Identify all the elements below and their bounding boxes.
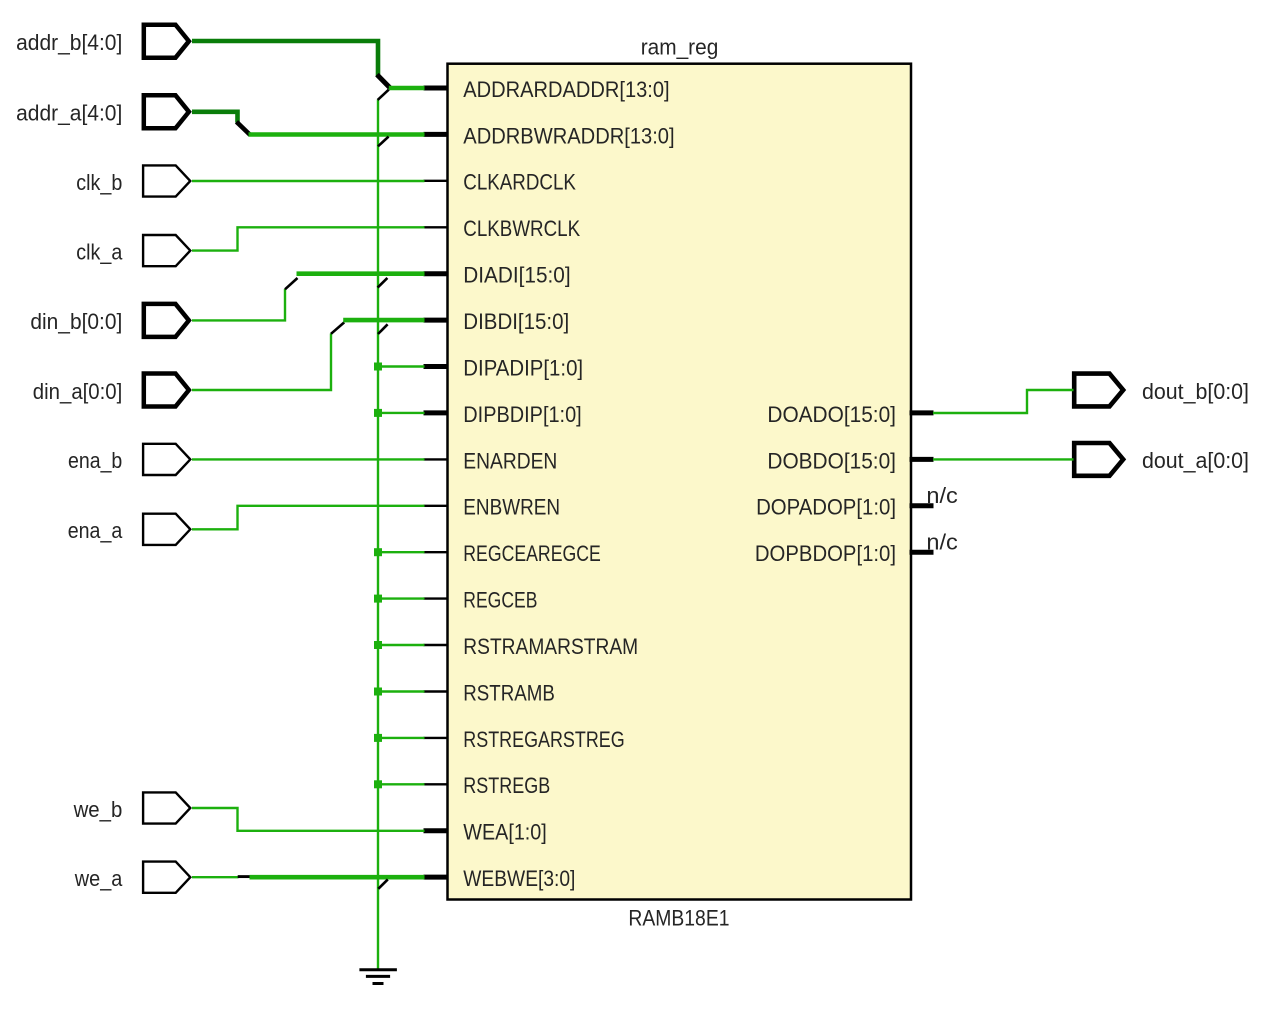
wire din_b bbox=[192, 289, 285, 320]
gnd branch wire to RSTRAMB bbox=[378, 690, 425, 692]
bus ripper addr_b to ADDRARDADDR bbox=[377, 75, 390, 88]
svg-text:RSTRAMARSTRAM: RSTRAMARSTRAM bbox=[463, 634, 638, 659]
port label addr_a[4:0] bbox=[16, 101, 122, 126]
pin stub DOPADOP[1:0] bbox=[910, 503, 934, 508]
bus ripper ADDRBWRADDR rail tap bbox=[378, 137, 389, 147]
pin label CLKBWRCLK bbox=[463, 216, 580, 241]
gnd branch wire to REGCEB bbox=[378, 597, 425, 599]
gnd branch wire to RSTREGARSTREG bbox=[378, 737, 425, 739]
pin label DOPBDOP[1:0] bbox=[755, 541, 896, 566]
pin label ENARDEN bbox=[463, 448, 557, 473]
svg-text:ADDRBWRADDR[13:0]: ADDRBWRADDR[13:0] bbox=[463, 123, 674, 148]
svg-text:RSTREGB: RSTREGB bbox=[463, 773, 550, 798]
output port dout_a[0:0] bbox=[1074, 443, 1123, 476]
svg-text:DIPADIP[1:0]: DIPADIP[1:0] bbox=[463, 355, 583, 380]
gnd branch wire to REGCEAREGCE bbox=[378, 551, 425, 553]
pin stub ENARDEN bbox=[424, 458, 449, 460]
svg-text:n/c: n/c bbox=[926, 529, 957, 554]
port label addr_b[4:0] bbox=[16, 30, 122, 55]
pin label DOPADOP[1:0] bbox=[756, 495, 896, 520]
bus ripper DIADI rail tap bbox=[378, 278, 388, 288]
svg-text:REGCEB: REGCEB bbox=[463, 588, 537, 613]
pin label ENBWREN bbox=[463, 495, 560, 520]
port label din_b[0:0] bbox=[30, 309, 122, 334]
svg-text:DIBDI[15:0]: DIBDI[15:0] bbox=[463, 309, 569, 334]
svg-text:din_a[0:0]: din_a[0:0] bbox=[33, 379, 123, 404]
junction dot RSTREGARSTREG bbox=[374, 734, 382, 742]
input port din_b[0:0] bbox=[144, 304, 189, 337]
pin label REGCEB bbox=[463, 588, 537, 613]
pin label RSTREGARSTREG bbox=[463, 727, 624, 752]
svg-text:WEA[1:0]: WEA[1:0] bbox=[463, 820, 547, 845]
pin label DIPADIP[1:0] bbox=[463, 355, 583, 380]
svg-text:n/c: n/c bbox=[926, 483, 957, 508]
svg-text:WEBWE[3:0]: WEBWE[3:0] bbox=[463, 866, 575, 891]
pin label DIBDI[15:0] bbox=[463, 309, 569, 334]
pin stub REGCEB bbox=[424, 597, 449, 599]
instance name ram_reg bbox=[641, 35, 719, 60]
wire ADDRBWRADDR bus bbox=[249, 132, 425, 137]
svg-text:REGCEAREGCE: REGCEAREGCE bbox=[463, 541, 601, 566]
svg-text:DOADO[15:0]: DOADO[15:0] bbox=[767, 402, 896, 427]
port label clk_a bbox=[76, 239, 123, 264]
input port din_a[0:0] bbox=[144, 374, 189, 407]
gnd branch wire to RSTREGB bbox=[378, 783, 425, 785]
svg-text:we_a: we_a bbox=[74, 866, 123, 891]
pin label REGCEAREGCE bbox=[463, 541, 601, 566]
pin stub CLKBWRCLK bbox=[424, 226, 449, 228]
junction dot RSTRAMARSTRAM bbox=[374, 641, 382, 649]
pin stub WEBWE[3:0] bbox=[424, 875, 449, 880]
pin label DIPBDIP[1:0] bbox=[463, 402, 581, 427]
RAM block ram_reg (RAMB18E1) bbox=[448, 64, 912, 900]
port label clk_b bbox=[76, 170, 122, 195]
input port clk_a bbox=[143, 235, 190, 266]
gnd branch wire to RSTRAMARSTRAM bbox=[378, 644, 425, 646]
wire addr_b bus bbox=[192, 41, 378, 77]
svg-text:RSTREGARSTREG: RSTREGARSTREG bbox=[463, 727, 624, 752]
svg-text:DIADI[15:0]: DIADI[15:0] bbox=[463, 263, 570, 288]
svg-text:addr_b[4:0]: addr_b[4:0] bbox=[16, 30, 122, 55]
svg-text:CLKARDCLK: CLKARDCLK bbox=[463, 170, 576, 195]
wire we_a bbox=[192, 876, 239, 878]
svg-text:addr_a[4:0]: addr_a[4:0] bbox=[16, 101, 122, 126]
ground rail wire bbox=[377, 100, 379, 969]
pin label ADDRARDADDR[13:0] bbox=[463, 77, 669, 102]
wire ena_a bbox=[192, 506, 425, 530]
pin stub ENBWREN bbox=[424, 505, 449, 507]
pin label RSTREGB bbox=[463, 773, 550, 798]
pin label DOADO[15:0] bbox=[767, 402, 896, 427]
input port ena_b bbox=[143, 444, 190, 475]
pin label DOBDO[15:0] bbox=[767, 448, 896, 473]
svg-text:ENBWREN: ENBWREN bbox=[463, 495, 560, 520]
pin label ADDRBWRADDR[13:0] bbox=[463, 123, 674, 148]
svg-text:ADDRARDADDR[13:0]: ADDRARDADDR[13:0] bbox=[463, 77, 669, 102]
wire clk_a bbox=[192, 227, 425, 250]
pin stub WEA[1:0] bbox=[424, 828, 449, 833]
wire DOADO to dout_b bbox=[933, 390, 1074, 413]
junction dot DIPADIP[1:0] bbox=[374, 363, 382, 371]
svg-text:ena_b: ena_b bbox=[68, 448, 122, 473]
pin stub DIADI[15:0] bbox=[424, 271, 449, 276]
pin stub RSTRAMARSTRAM bbox=[424, 644, 449, 646]
wire DOBDO to dout_a bbox=[933, 458, 1074, 460]
svg-text:din_b[0:0]: din_b[0:0] bbox=[30, 309, 122, 334]
junction dot RSTREGB bbox=[374, 780, 382, 788]
svg-text:DOPBDOP[1:0]: DOPBDOP[1:0] bbox=[755, 541, 896, 566]
input port clk_b bbox=[143, 165, 190, 196]
pin stub RSTREGB bbox=[424, 783, 449, 785]
bus ripper din_b to DIADI bbox=[285, 278, 298, 289]
svg-text:DOPADOP[1:0]: DOPADOP[1:0] bbox=[756, 495, 896, 520]
svg-text:dout_b[0:0]: dout_b[0:0] bbox=[1142, 379, 1249, 404]
pin stub REGCEAREGCE bbox=[424, 551, 449, 553]
pin label RSTRAMB bbox=[463, 680, 555, 705]
svg-text:dout_a[0:0]: dout_a[0:0] bbox=[1142, 448, 1249, 473]
svg-text:ram_reg: ram_reg bbox=[641, 35, 719, 60]
port label we_b bbox=[73, 797, 123, 822]
pin label WEBWE[3:0] bbox=[463, 866, 575, 891]
wire clk_b bbox=[192, 180, 425, 182]
wire WEBWE bus bbox=[250, 875, 425, 880]
pin stub CLKARDCLK bbox=[424, 180, 449, 182]
gnd branch wire to DIPBDIP[1:0] bbox=[378, 412, 425, 414]
pin stub ADDRARDADDR[13:0] bbox=[424, 86, 449, 91]
junction dot DIPBDIP[1:0] bbox=[374, 409, 382, 417]
pin stub RSTRAMB bbox=[424, 690, 449, 692]
cell type RAMB18E1 bbox=[628, 906, 729, 931]
svg-text:RAMB18E1: RAMB18E1 bbox=[628, 906, 729, 931]
bus ripper rail top bbox=[378, 90, 389, 100]
input port we_b bbox=[143, 792, 190, 823]
pin stub DOBDO[15:0] bbox=[910, 457, 934, 462]
pin label DIADI[15:0] bbox=[463, 263, 570, 288]
wire addr_a bus bbox=[192, 112, 238, 123]
gnd branch wire to DIPADIP[1:0] bbox=[378, 365, 425, 367]
bus ripper addr_a to ADDRBWRADDR bbox=[237, 122, 251, 135]
port label ena_b bbox=[68, 448, 122, 473]
svg-text:RSTRAMB: RSTRAMB bbox=[463, 680, 555, 705]
svg-text:we_b: we_b bbox=[73, 797, 123, 822]
pin label CLKARDCLK bbox=[463, 170, 576, 195]
label n/c for DOPBDOP bbox=[926, 529, 957, 554]
pin stub DIBDI[15:0] bbox=[424, 318, 449, 323]
wire ADDRARDADDR bus bbox=[389, 86, 425, 91]
port label dout_b[0:0] bbox=[1142, 379, 1249, 404]
port label we_a bbox=[74, 866, 123, 891]
input port ena_a bbox=[143, 514, 190, 545]
pin stub DOADO[15:0] bbox=[910, 410, 934, 415]
pin stub ADDRBWRADDR[13:0] bbox=[424, 132, 449, 137]
wire din_a bbox=[192, 334, 331, 391]
svg-text:DOBDO[15:0]: DOBDO[15:0] bbox=[767, 448, 896, 473]
wire DIADI bus bbox=[297, 271, 425, 276]
svg-text:ENARDEN: ENARDEN bbox=[463, 448, 557, 473]
bus ripper din_a to DIBDI bbox=[331, 322, 344, 333]
label n/c for DOPADOP bbox=[926, 483, 957, 508]
bus ripper WEBWE rail tap bbox=[378, 879, 388, 888]
pin label RSTRAMARSTRAM bbox=[463, 634, 638, 659]
svg-text:ena_a: ena_a bbox=[68, 518, 123, 543]
junction dot REGCEAREGCE bbox=[374, 548, 382, 556]
ground bbox=[359, 970, 397, 984]
junction dot REGCEB bbox=[374, 595, 382, 603]
bus ripper DIBDI rail tap bbox=[378, 324, 388, 334]
svg-text:clk_a: clk_a bbox=[76, 239, 123, 264]
pin label WEA[1:0] bbox=[463, 820, 547, 845]
output port dout_b[0:0] bbox=[1074, 374, 1123, 407]
port label dout_a[0:0] bbox=[1142, 448, 1249, 473]
svg-text:CLKBWRCLK: CLKBWRCLK bbox=[463, 216, 580, 241]
wire we_b bbox=[192, 808, 425, 831]
bus ripper we_a to WEBWE bbox=[238, 875, 251, 878]
pin stub DIPBDIP[1:0] bbox=[424, 410, 449, 415]
pin stub DOPBDOP[1:0] bbox=[910, 550, 934, 555]
input port we_a bbox=[143, 862, 190, 893]
input port addr_a[4:0] bbox=[144, 95, 189, 128]
svg-text:DIPBDIP[1:0]: DIPBDIP[1:0] bbox=[463, 402, 581, 427]
wire ena_b bbox=[192, 458, 425, 460]
input port addr_b[4:0] bbox=[144, 25, 189, 58]
junction dot RSTRAMB bbox=[374, 688, 382, 696]
pin stub RSTREGARSTREG bbox=[424, 737, 449, 739]
wire DIBDI bus bbox=[343, 318, 424, 323]
svg-text:clk_b: clk_b bbox=[76, 170, 122, 195]
port label din_a[0:0] bbox=[33, 379, 123, 404]
port label ena_a bbox=[68, 518, 123, 543]
pin stub DIPADIP[1:0] bbox=[424, 364, 449, 369]
